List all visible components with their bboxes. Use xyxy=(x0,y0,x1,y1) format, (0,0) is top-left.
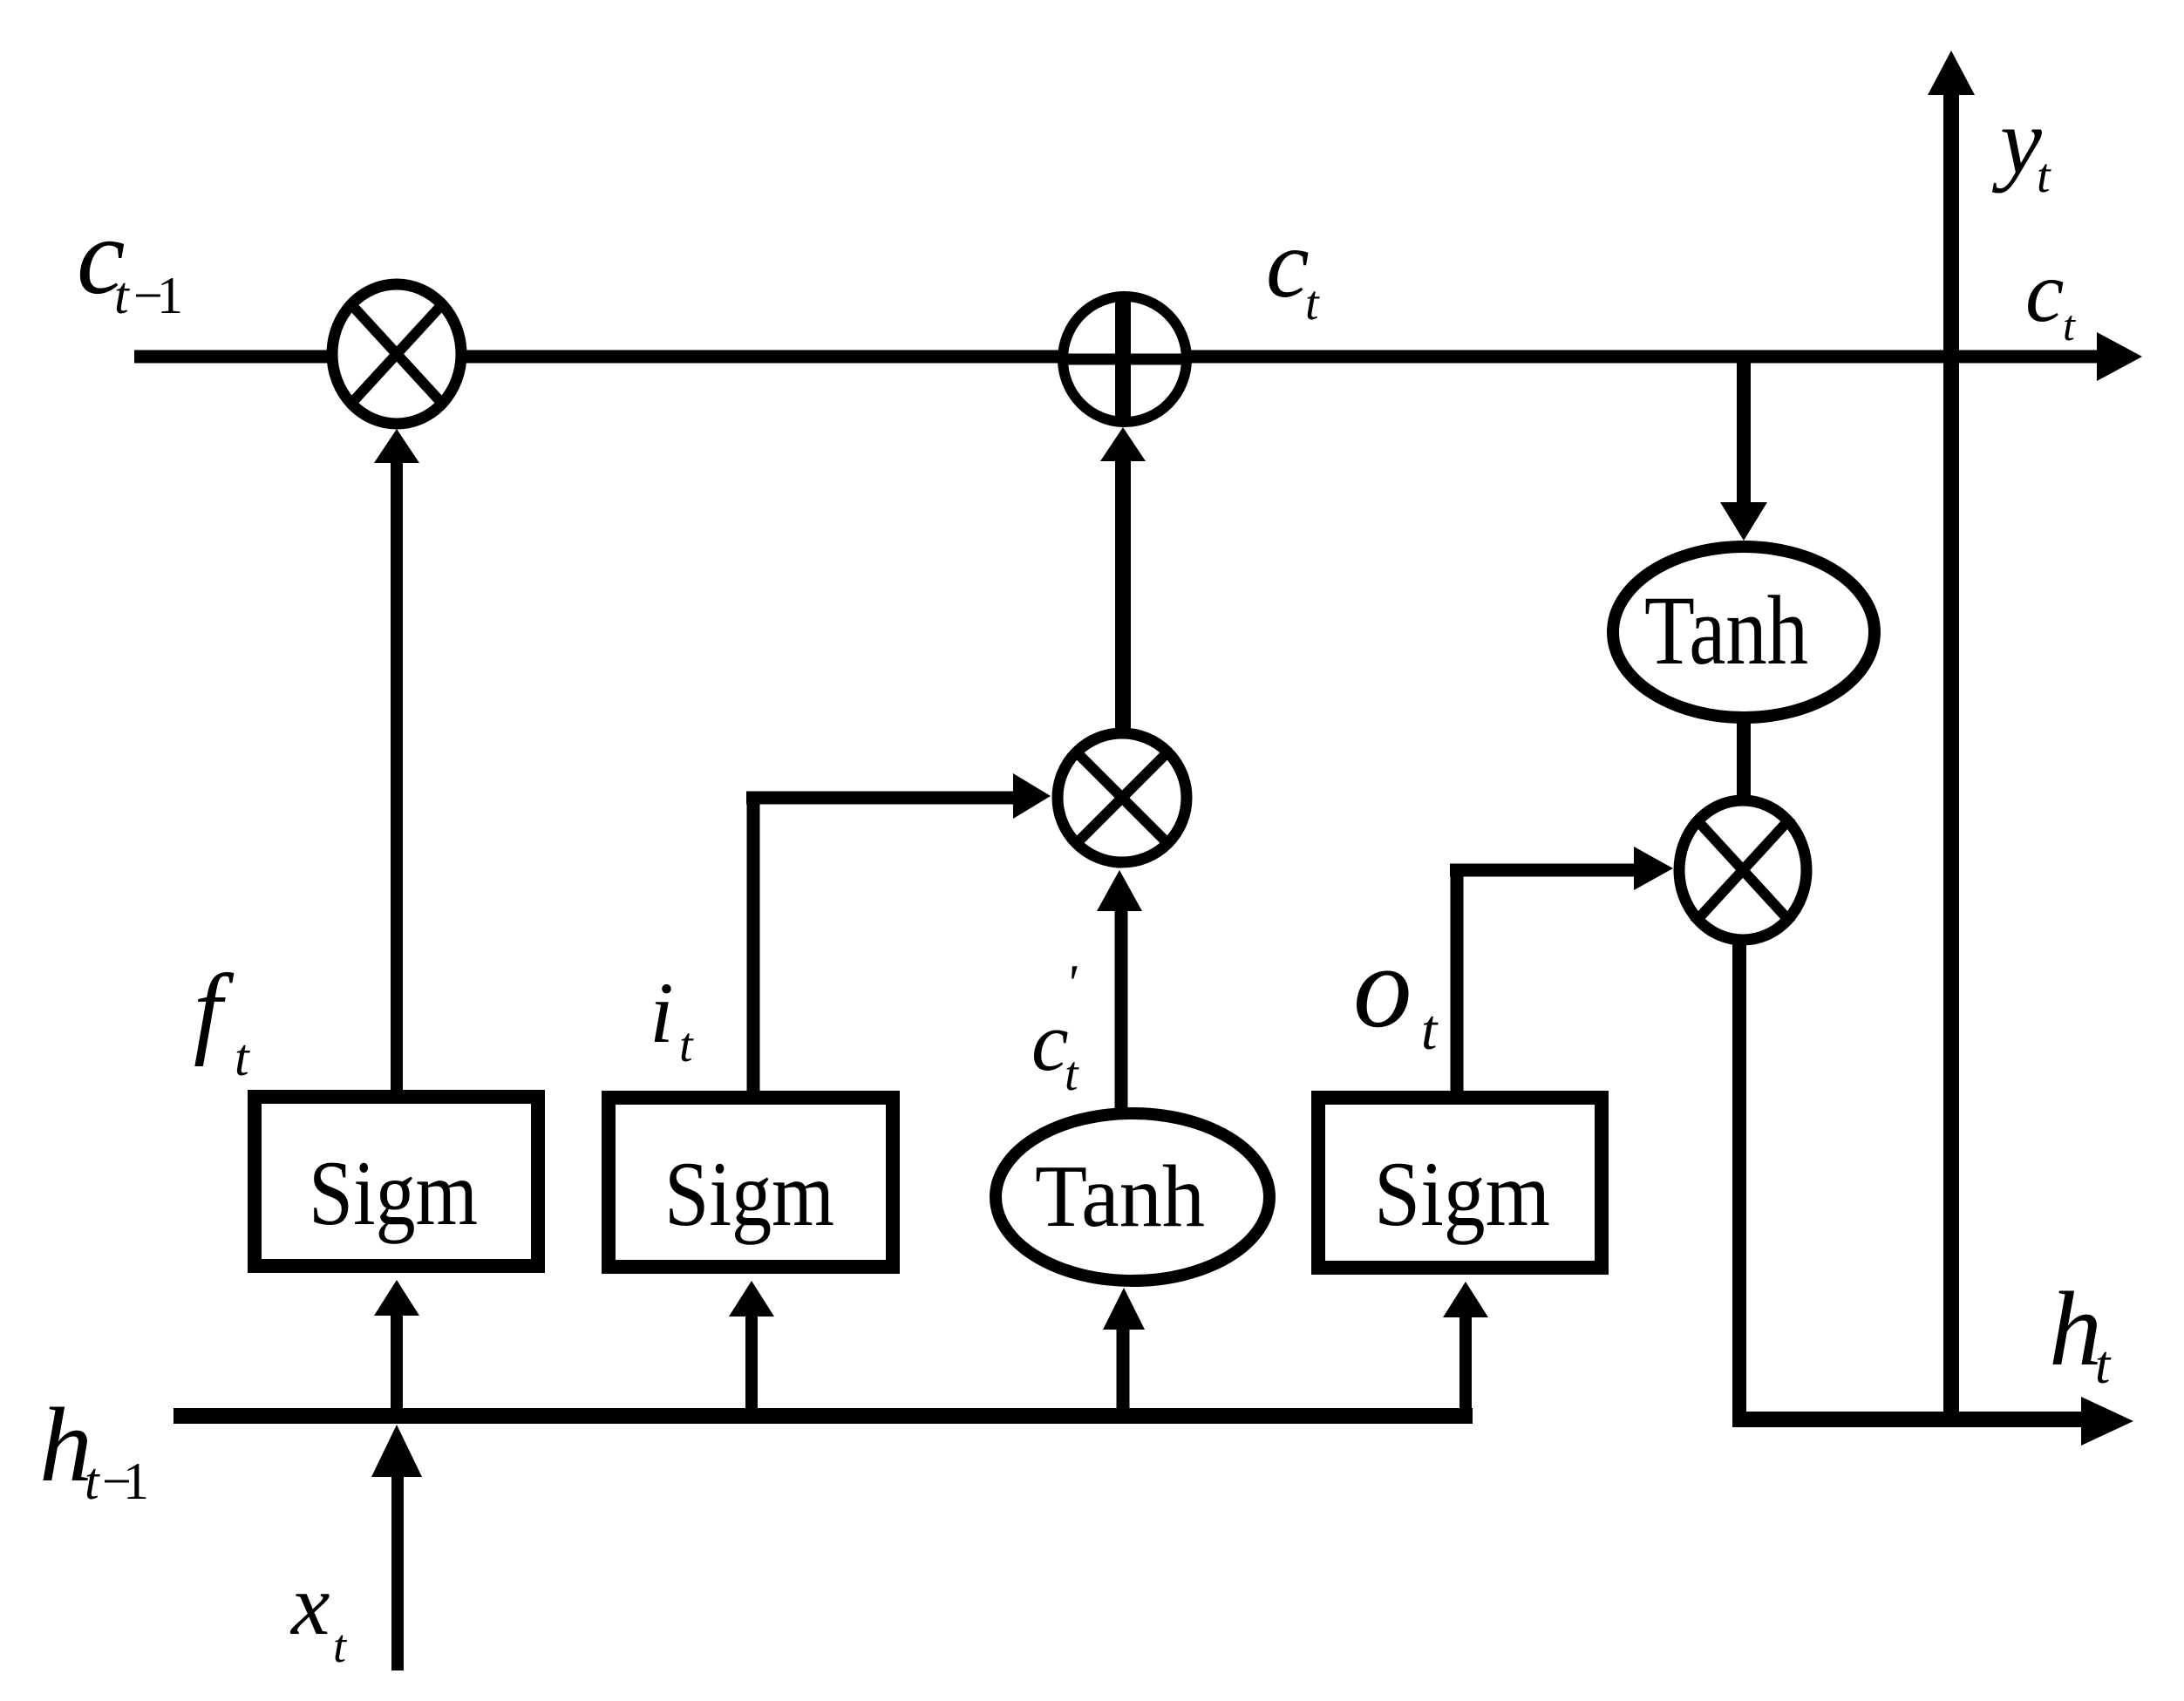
Sigm box f xyxy=(255,1097,538,1266)
svg-text:c: c xyxy=(1266,210,1310,318)
label c_t (right) xyxy=(2025,243,2076,350)
wire f-gate up into X1 xyxy=(374,429,419,1100)
svg-text:t: t xyxy=(2063,301,2076,350)
wire o-gate path into X2 xyxy=(1450,847,1673,1100)
svg-text:t: t xyxy=(1421,998,1439,1062)
svg-text:': ' xyxy=(1065,955,1078,1012)
svg-text:t: t xyxy=(2095,1336,2112,1395)
wire arrow from h-line into Sigm o xyxy=(1443,1282,1488,1408)
svg-text:Tanh: Tanh xyxy=(1644,576,1808,685)
svg-text:i: i xyxy=(650,964,674,1061)
label y_t xyxy=(1991,90,2051,203)
svg-text:t: t xyxy=(85,1453,100,1510)
svg-text:−1: −1 xyxy=(102,1453,149,1510)
multiply node X1 (forget) xyxy=(332,284,461,424)
Tanh node bottom xyxy=(996,1113,1269,1281)
multiply node X3 (input) xyxy=(1058,733,1187,862)
wire h-line up into bottom Tanh xyxy=(1103,1288,1145,1412)
wire x_t input arrow xyxy=(371,1425,422,1670)
svg-text:o: o xyxy=(1353,922,1412,1052)
label h_{t-1} xyxy=(39,1386,149,1510)
label c_t (top middle) xyxy=(1266,210,1320,330)
Sigm box o xyxy=(1318,1098,1602,1268)
svg-text:Tanh: Tanh xyxy=(1035,1147,1205,1246)
label f_t xyxy=(194,953,250,1086)
label c_{t-1} xyxy=(77,197,183,324)
label o_t xyxy=(1353,922,1439,1062)
label c'_t xyxy=(1031,955,1079,1101)
wire X2 down to h-line right part xyxy=(1732,942,1746,1423)
svg-text:x: x xyxy=(289,1556,330,1653)
wire right Tanh down to X2 xyxy=(1737,719,1751,802)
label h_t xyxy=(2049,1270,2112,1395)
wire add-up from X3 into plus xyxy=(1100,427,1146,728)
wire h-line (bottom horizontal, left part) xyxy=(173,1408,1473,1424)
svg-text:−1: −1 xyxy=(133,267,183,324)
Sigm box i xyxy=(609,1098,893,1267)
svg-text:Sigm: Sigm xyxy=(664,1143,834,1245)
wire c-line (cell state, horizontal top) xyxy=(134,332,2142,381)
wire arrow from h-line into Sigm i xyxy=(729,1281,774,1408)
svg-text:Sigm: Sigm xyxy=(309,1142,478,1244)
wire c-line down into right Tanh xyxy=(1720,359,1767,541)
wire y_t output vertical xyxy=(1928,51,1975,1419)
svg-text:t: t xyxy=(1305,276,1320,330)
wire arrow from h-line into Sigm f xyxy=(374,1280,419,1408)
svg-text:Sigm: Sigm xyxy=(1374,1143,1550,1245)
svg-text:c: c xyxy=(2025,243,2064,340)
label i_t xyxy=(650,964,694,1072)
svg-text:t: t xyxy=(679,1018,694,1072)
svg-text:t: t xyxy=(333,1620,348,1672)
Tanh node right xyxy=(1613,547,1874,718)
wire bottom Tanh up into X3 xyxy=(1097,870,1142,1109)
svg-text:c: c xyxy=(1031,995,1069,1088)
svg-text:t: t xyxy=(235,1029,250,1086)
label x_t xyxy=(289,1556,348,1672)
add node plus xyxy=(1063,296,1187,422)
svg-text:t: t xyxy=(1065,1047,1079,1101)
svg-text:h: h xyxy=(2049,1270,2102,1388)
wire i-gate path into X3 xyxy=(746,773,1051,1100)
svg-text:t: t xyxy=(114,267,130,324)
svg-text:t: t xyxy=(2037,149,2051,203)
wire h-line right part with h_t arrow xyxy=(1732,1397,2133,1446)
multiply node X2 (output) xyxy=(1679,800,1806,940)
